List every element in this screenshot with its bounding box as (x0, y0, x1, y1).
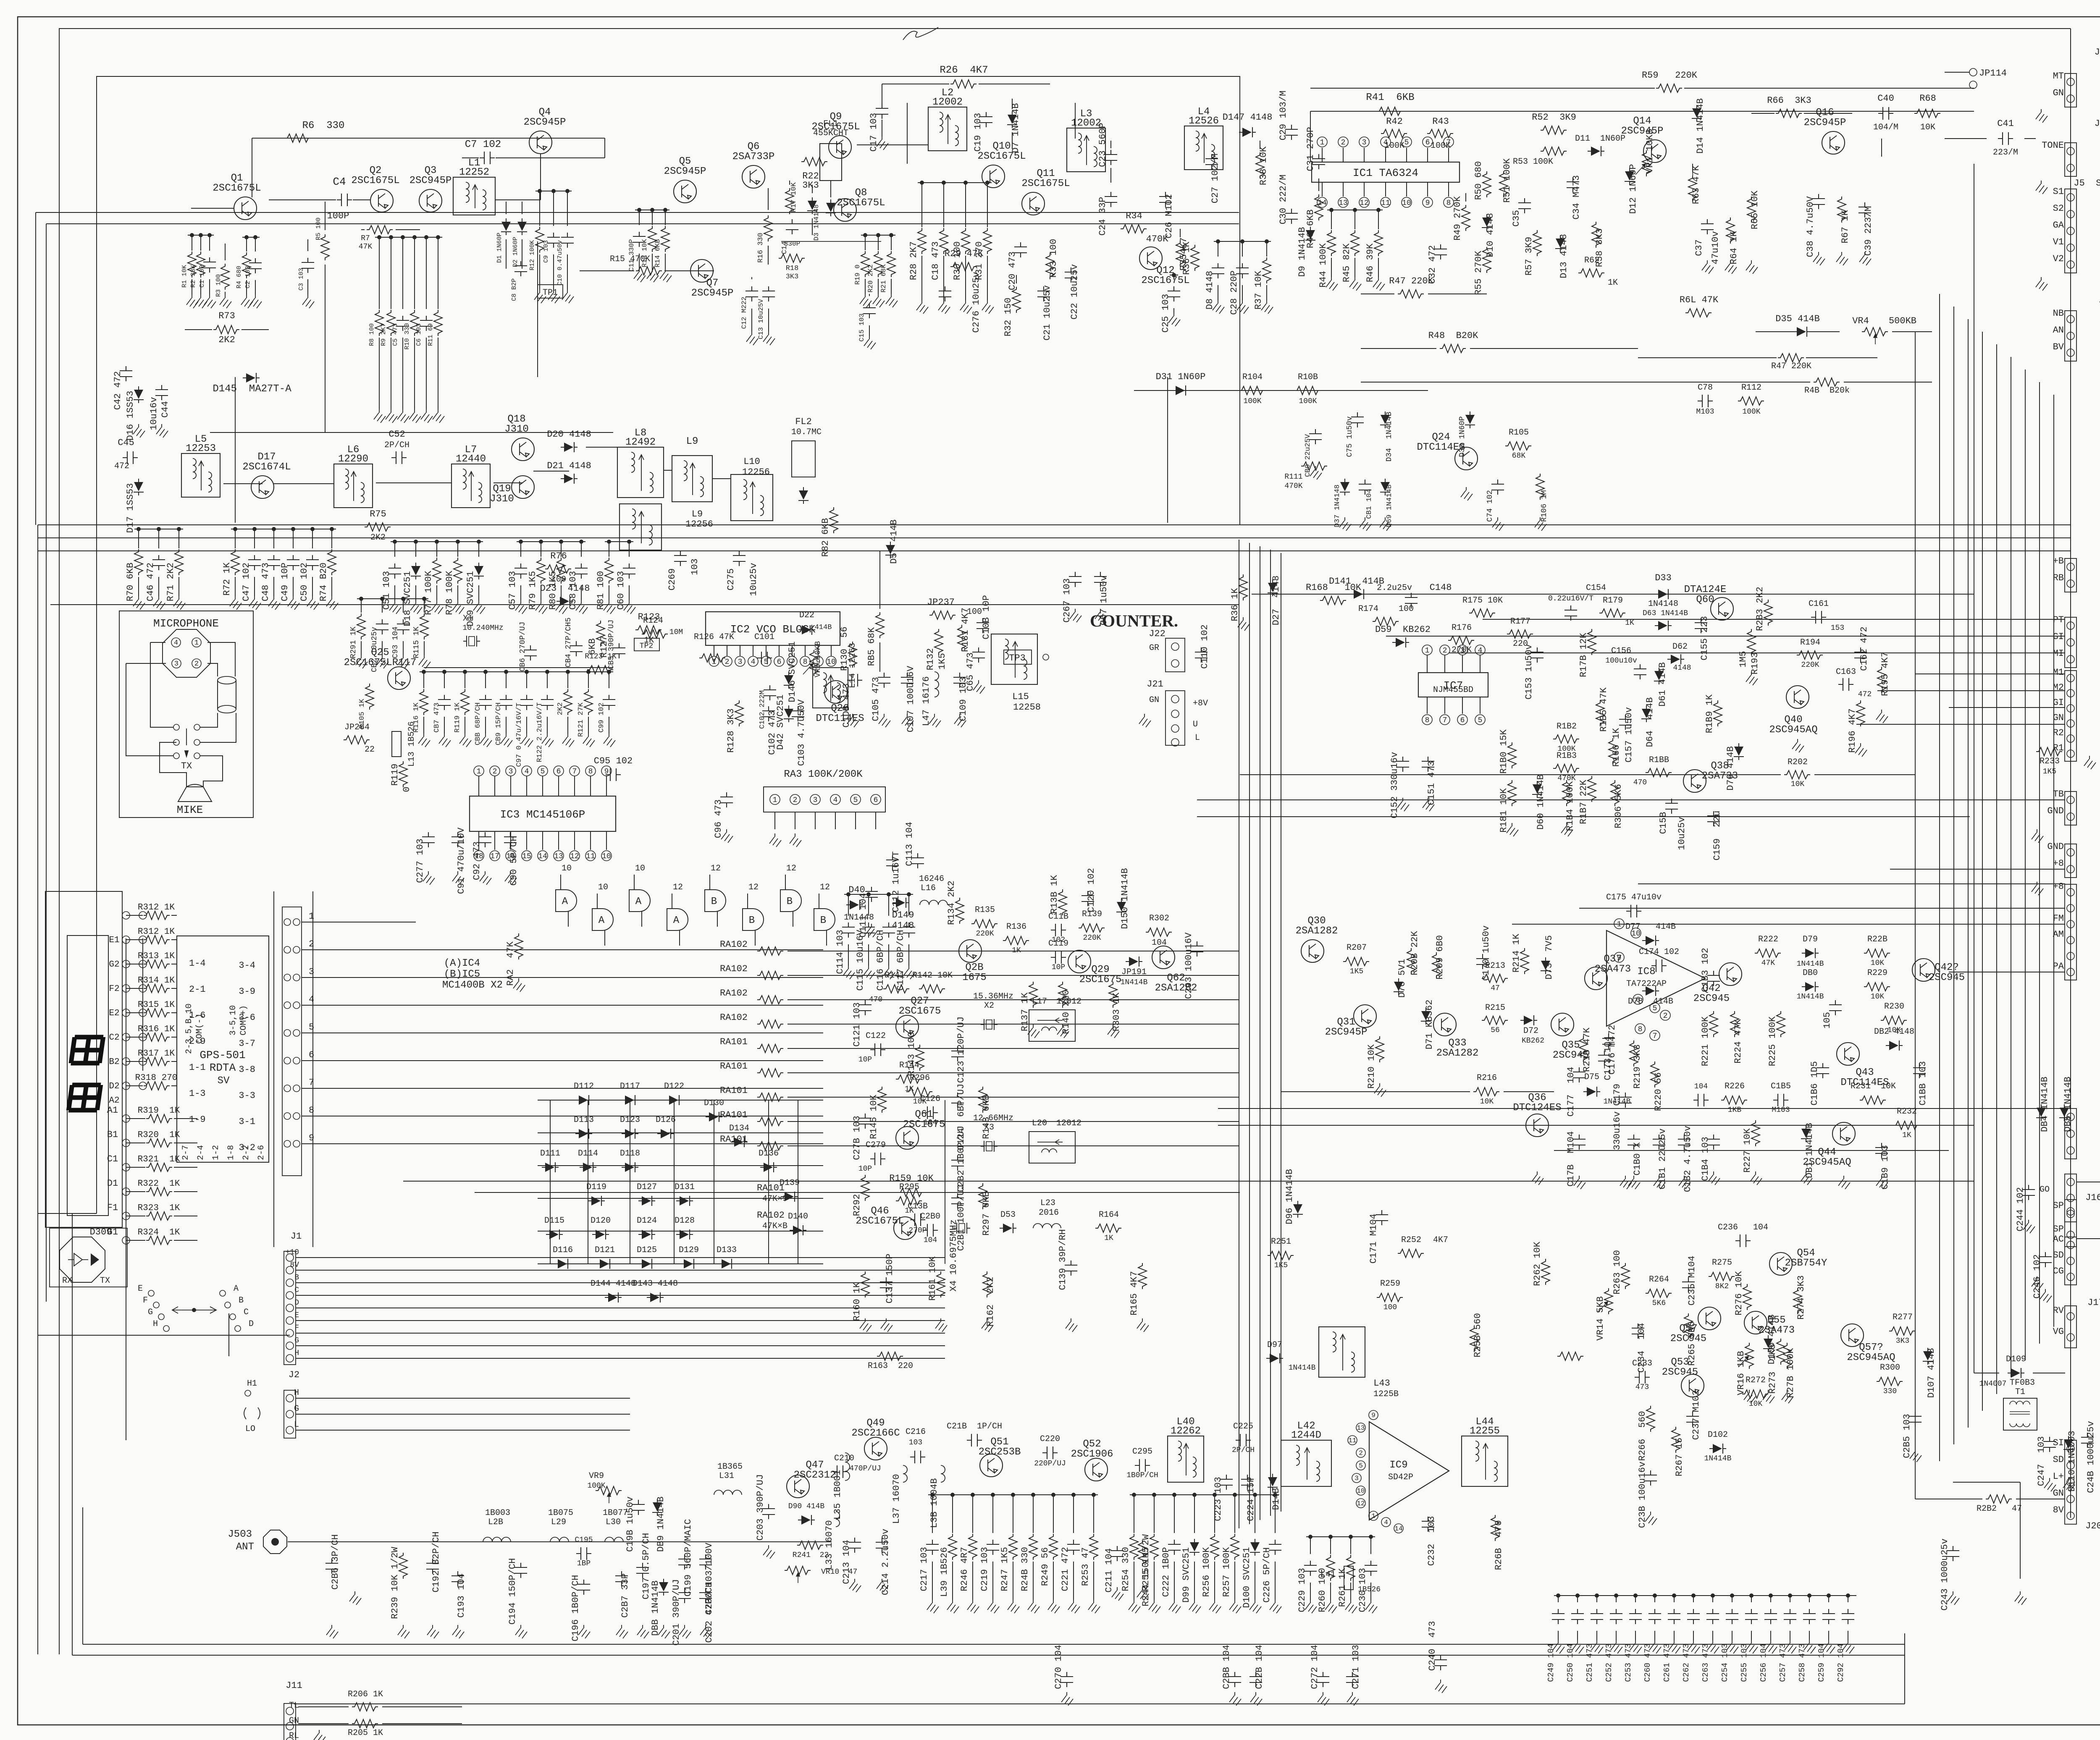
svg-text:C194 150P/CH: C194 150P/CH (507, 1558, 518, 1625)
wire (2077, 696, 2100, 1182)
capacitor C295 (1135, 1459, 1150, 1472)
svg-text:2SC2312: 2SC2312 (794, 1470, 836, 1481)
capacitor C255 (1751, 1596, 1752, 1602)
svg-text:R297 6KB: R297 6KB (981, 1191, 992, 1236)
ground (1129, 1600, 1140, 1613)
svg-text:C30 222/M: C30 222/M (1278, 175, 1289, 225)
resistor R7 (367, 225, 393, 234)
svg-text:D42 SVC251: D42 SVC251 (775, 694, 786, 750)
svg-text:2: 2 (194, 660, 199, 668)
svg-text:R130 56: R130 56 (839, 626, 850, 671)
svg-text:11: 11 (586, 852, 595, 861)
resistor R4 (246, 237, 247, 252)
svg-text:R36 1K: R36 1K (1230, 588, 1240, 621)
svg-text:C235 M104: C235 M104 (1687, 1256, 1697, 1306)
resistor R205 (352, 1719, 378, 1728)
ground (515, 600, 527, 614)
ground (987, 1600, 999, 1613)
ground (1189, 1600, 1201, 1613)
diode D107 (1923, 1348, 1933, 1365)
diode D133 (718, 1259, 735, 1269)
svg-text:D99 SVC251: D99 SVC251 (1181, 1547, 1192, 1603)
ground (2032, 882, 2043, 895)
svg-text:12258: 12258 (1013, 702, 1041, 713)
diode D129 (680, 1259, 697, 1269)
svg-text:6: 6 (1636, 996, 1641, 1004)
svg-text:R224 47K: R224 47K (1733, 1019, 1743, 1063)
svg-text:C148: C148 (1430, 582, 1452, 593)
capacitor C243 (1947, 1546, 1959, 1561)
svg-text:Q18: Q18 (507, 414, 525, 425)
svg-text:C193 104: C193 104 (456, 1573, 467, 1618)
svg-text:C157 1u50v: C157 1u50v (1624, 707, 1634, 763)
resistor R185 (1596, 700, 1604, 726)
svg-text:+10: +10 (286, 1248, 299, 1257)
capacitor C182 (1678, 1135, 1690, 1150)
svg-text:IC8: IC8 (1637, 966, 1655, 977)
svg-text:470P/UJ: 470P/UJ (849, 1465, 881, 1473)
resistor R128 (735, 700, 743, 726)
diode D81 (1801, 1125, 1811, 1142)
ground (1229, 1600, 1241, 1613)
resistor R24B (1033, 1495, 1034, 1533)
resistor R66 (1776, 109, 1802, 118)
svg-text:C211 104: C211 104 (1104, 1548, 1114, 1593)
ground (860, 1318, 871, 1332)
resistor R73 (213, 325, 239, 334)
svg-text:R50 680: R50 680 (1473, 161, 1484, 200)
svg-text:CB7 473: CB7 473 (433, 702, 441, 732)
svg-text:C192 B2P/CH: C192 B2P/CH (431, 1531, 441, 1592)
svg-text:R62: R62 (1584, 256, 1599, 265)
ground (133, 424, 145, 438)
connector J12 (2065, 617, 2076, 668)
capacitor C11 (639, 210, 640, 225)
transistor Q31 (1354, 1005, 1376, 1027)
resistor R22 (801, 157, 827, 166)
svg-text:R274 3K3: R274 3K3 (1796, 1275, 1806, 1320)
capacitor C217 (932, 1495, 933, 1533)
svg-text:D96 1N414B: D96 1N414B (1284, 1169, 1295, 1224)
svg-text:AC: AC (2053, 1234, 2064, 1245)
wire (2020, 1482, 2021, 1579)
svg-text:R202: R202 (1788, 757, 1808, 767)
svg-text:RA2 47K: RA2 47K (505, 941, 516, 985)
wire (302, 1032, 823, 1033)
capacitor C272 (1317, 1672, 1329, 1687)
svg-text:R6L 47K: R6L 47K (1680, 295, 1719, 305)
resistor R247 (1013, 1495, 1013, 1533)
diode D1 (501, 218, 511, 235)
capacitor C152 (1396, 757, 1409, 772)
transistor Q57 (1698, 1307, 1721, 1330)
resistor R47 (1398, 290, 1424, 298)
wire (1167, 377, 1168, 523)
diode D62 (1667, 654, 1684, 664)
capacitor C138 (910, 1213, 925, 1226)
resistor R61 (1685, 309, 1711, 317)
wire (302, 1088, 823, 1089)
wire (302, 1116, 823, 1116)
svg-text:1-8: 1-8 (226, 1145, 236, 1160)
diode D17b (134, 479, 144, 495)
svg-text:C47 102: C47 102 (241, 563, 252, 601)
ground (1804, 1640, 1816, 1654)
svg-text:C220: C220 (1040, 1434, 1060, 1444)
resistor R20 (878, 235, 879, 250)
ground (1630, 1640, 1642, 1654)
svg-text:C139 39P/RH: C139 39P/RH (1058, 1229, 1068, 1290)
logic gate (592, 909, 613, 930)
resistor R208 (1407, 948, 1415, 974)
wire (35, 212, 36, 525)
transistor Q37 (1585, 967, 1607, 990)
transistor Q4 (529, 131, 552, 154)
ground (1305, 1600, 1317, 1613)
connector J5 (2065, 189, 2076, 273)
svg-text:1-9: 1-9 (189, 1114, 206, 1125)
ground (1611, 1640, 1622, 1654)
svg-text:2SC945: 2SC945 (1929, 972, 1965, 983)
svg-text:R220 56: R220 56 (1653, 1072, 1664, 1111)
svg-text:R68: R68 (1919, 93, 1936, 104)
svg-text:18: 18 (474, 852, 483, 861)
svg-text:VR16 1KB: VR16 1KB (1736, 1351, 1746, 1395)
ground (1669, 1640, 1680, 1654)
svg-text:J21: J21 (1147, 679, 1163, 689)
svg-text:1B077: 1B077 (603, 1508, 628, 1518)
svg-text:R256 100K: R256 100K (1201, 1547, 1212, 1597)
diode D144 (605, 1292, 622, 1302)
svg-text:F1: F1 (107, 1203, 118, 1213)
svg-text:8: 8 (1425, 716, 1430, 725)
capacitor C121 (859, 1000, 871, 1015)
svg-text:R312 1K: R312 1K (138, 903, 175, 912)
svg-text:12256: 12256 (742, 467, 770, 477)
svg-text:R17B 12K: R17B 12K (1578, 632, 1589, 677)
wire (1252, 594, 1974, 595)
svg-text:R160 1K: R160 1K (852, 1282, 862, 1321)
svg-text:C155 223: C155 223 (1699, 616, 1710, 660)
svg-text:RA102: RA102 (720, 964, 748, 974)
svg-text:IC9: IC9 (1389, 1460, 1407, 1471)
svg-text:C34 M473: C34 M473 (1571, 175, 1582, 220)
svg-text:R225 100K: R225 100K (1767, 1016, 1778, 1067)
svg-text:Q57: Q57 (1679, 1323, 1697, 1334)
capacitor C247 (2043, 1437, 2056, 1452)
capacitor C84 (570, 641, 583, 656)
ground (1572, 1640, 1584, 1654)
transistor Q42 (1719, 963, 1742, 985)
ground (1746, 672, 1758, 685)
svg-text:C292 104: C292 104 (1836, 1643, 1845, 1682)
svg-text:D147 4148: D147 4148 (1223, 112, 1273, 123)
svg-text:R20 2K2: R20 2K2 (867, 264, 874, 292)
wire (781, 241, 881, 242)
svg-text:C199 560P/MAIC: C199 560P/MAIC (683, 1519, 693, 1597)
resistor R58 (1592, 222, 1600, 248)
svg-text:5: 5 (541, 768, 545, 776)
wire (1638, 883, 2065, 884)
svg-text:TF0B3: TF0B3 (2010, 1378, 2035, 1388)
ground (2044, 1478, 2056, 1491)
svg-text:270P: 270P (908, 1226, 927, 1235)
svg-text:104/M: 104/M (1873, 123, 1898, 132)
capacitor C159 (1707, 811, 1720, 826)
svg-text:2SC945AQ: 2SC945AQ (1847, 1352, 1895, 1363)
wire (38, 550, 2071, 551)
capacitor C45 (123, 451, 138, 464)
svg-text:C232 103: C232 103 (1426, 1516, 1437, 1566)
potentiometer (1604, 1288, 1613, 1314)
capacitor C225 (1236, 1434, 1251, 1447)
resistor R239 (399, 1553, 407, 1579)
capacitor C4 (337, 194, 352, 206)
wire (588, 1100, 588, 1264)
ground (268, 596, 280, 610)
resistor R226 (1721, 1096, 1747, 1104)
ground (1397, 798, 1409, 811)
capacitor C233 (1635, 1371, 1650, 1384)
ground (604, 600, 615, 614)
resistor R264 (1646, 1289, 1672, 1297)
resistor R278 (1783, 1343, 1791, 1369)
resistor R77 (436, 542, 437, 557)
connector J4 (2065, 143, 2076, 176)
diode D130 (706, 1112, 722, 1122)
wire (1310, 111, 1311, 162)
svg-text:1N414B: 1N414B (1121, 978, 1148, 987)
svg-text:A: A (635, 896, 642, 907)
svg-text:1B003: 1B003 (485, 1508, 510, 1518)
svg-text:R33 100: R33 100 (1048, 239, 1059, 278)
svg-text:GN: GN (289, 1716, 299, 1726)
diode D30 (1465, 411, 1475, 428)
wire (2070, 29, 2071, 67)
svg-text:2: 2 (493, 768, 497, 776)
svg-text:FM: FM (2053, 913, 2064, 924)
svg-text:R264: R264 (1649, 1275, 1669, 1284)
crystal X2 (981, 1019, 997, 1030)
svg-text:7: 7 (572, 768, 577, 776)
connector J20 (2065, 1440, 2076, 1524)
resistor R184 (1562, 780, 1571, 806)
svg-text:R11 69: R11 69 (427, 323, 434, 346)
svg-text:L20: L20 (1032, 1119, 1047, 1128)
svg-text:330u16v C179: 330u16v C179 (1612, 1084, 1622, 1150)
resistor R132 (934, 629, 943, 655)
svg-text:3-3: 3-3 (239, 1090, 255, 1101)
svg-text:C229 103: C229 103 (1297, 1568, 1307, 1612)
svg-text:1B365: 1B365 (717, 1462, 743, 1472)
svg-text:D102: D102 (1708, 1430, 1728, 1440)
svg-text:D129: D129 (679, 1245, 699, 1255)
svg-text:R81 100: R81 100 (596, 571, 606, 610)
transistor Q47 (787, 1475, 809, 1498)
connector J13 (2065, 671, 2076, 761)
svg-text:D21 4148: D21 4148 (547, 461, 591, 471)
resistor R292 (861, 1175, 869, 1201)
transistor Q55 (1744, 1311, 1767, 1334)
svg-text:C252 473: C252 473 (1604, 1643, 1614, 1682)
resistor rows R312-R318 (144, 911, 170, 920)
ground (1365, 1600, 1377, 1613)
resistor R249 (1053, 1495, 1054, 1533)
svg-text:J17: J17 (2087, 1297, 2100, 1308)
ground (1068, 1600, 1080, 1613)
ground (501, 734, 512, 747)
svg-text:C7 102: C7 102 (465, 139, 501, 150)
svg-text:C116 6BP/CH: C116 6BP/CH (875, 930, 886, 991)
svg-text:D53: D53 (1000, 1210, 1016, 1220)
diode D125 (638, 1259, 655, 1269)
svg-text:2SC945: 2SC945 (1662, 1367, 1698, 1378)
svg-text:10: 10 (827, 658, 836, 666)
svg-text:100K: 100K (1299, 397, 1317, 406)
mike speaker (178, 784, 212, 802)
svg-text:10P: 10P (858, 1056, 872, 1064)
resistor R49 (1465, 193, 1466, 202)
svg-text:C1BB 103: C1BB 103 (1918, 1061, 1928, 1106)
resistor R135 (971, 920, 997, 928)
svg-text:6: 6 (1460, 716, 1465, 725)
svg-text:2SC945P: 2SC945P (409, 175, 452, 186)
svg-text:C13B: C13B (908, 1202, 928, 1211)
resistor R1 (192, 235, 192, 251)
svg-text:R65 10K: R65 10K (1750, 190, 1760, 229)
diode D33 (1655, 589, 1672, 599)
capacitor C112 (886, 855, 899, 870)
potentiometer (596, 1486, 622, 1495)
capacitor C154 (1564, 605, 1577, 621)
capacitor C178 (1573, 1135, 1585, 1150)
svg-text:Q53: Q53 (1671, 1357, 1689, 1368)
wire (1483, 619, 2065, 620)
capacitor C177 (1573, 1067, 1585, 1082)
ground (249, 596, 261, 610)
ground (604, 734, 615, 747)
svg-text:D2: D2 (109, 1082, 119, 1091)
GPS-501 rotary switch (177, 936, 269, 1162)
svg-text:R231 10K: R231 10K (1851, 1082, 1896, 1091)
svg-text:R46 39K: R46 39K (1365, 243, 1375, 282)
resistor R261 (1350, 1537, 1351, 1554)
wire (1218, 1125, 1974, 1126)
resistor R260 (1330, 1537, 1331, 1554)
resistor 2K2 (567, 672, 568, 688)
capacitor C271 (1346, 1672, 1359, 1687)
jumper JP114 (1969, 68, 1977, 76)
svg-text:10K: 10K (1791, 780, 1805, 789)
7-segment digit (71, 1037, 103, 1063)
svg-text:2-2: 2-2 (241, 1145, 251, 1160)
svg-text:ANT: ANT (236, 1541, 254, 1553)
svg-text:R300: R300 (1880, 1363, 1900, 1373)
ground (1765, 1640, 1777, 1654)
ground (534, 290, 546, 303)
svg-text:C255 103: C255 103 (1740, 1643, 1749, 1682)
resistor R244 (1138, 1540, 1147, 1566)
capacitor C232 (1422, 1517, 1434, 1532)
inductor L23 (1033, 1224, 1061, 1228)
svg-text:4: 4 (751, 658, 756, 666)
capacitor C27 (1205, 154, 1218, 169)
svg-text:2SB754Y: 2SB754Y (1785, 1258, 1827, 1269)
svg-text:4: 4 (309, 994, 314, 1005)
wire (1554, 1150, 1949, 1151)
inductor L37 (903, 1465, 907, 1482)
svg-text:C276 10u25v: C276 10u25v (971, 272, 982, 333)
transistor Q61 (896, 1127, 919, 1149)
resistor L39 (952, 1495, 953, 1533)
switch H1/LO (245, 1390, 251, 1396)
transistor Q40 (1786, 686, 1809, 708)
capacitor C13 (762, 286, 775, 301)
svg-text:2: 2 (1341, 139, 1346, 147)
diode D60 (1532, 781, 1542, 798)
resistor R57 (1533, 230, 1541, 256)
transistor Q62 (1152, 946, 1175, 969)
transistor Q18 (512, 438, 534, 461)
filter FL2 (792, 441, 815, 477)
capacitor C171 (1375, 1210, 1388, 1225)
svg-text:R119 1K: R119 1K (454, 702, 462, 733)
svg-text:C1B4 103: C1B4 103 (1700, 1137, 1711, 1181)
diode D11 (1588, 146, 1604, 156)
svg-text:D120: D120 (591, 1216, 611, 1226)
svg-text:C249 104: C249 104 (1546, 1643, 1556, 1682)
diode D121 (596, 1259, 613, 1269)
wire (312, 891, 313, 1247)
ground (1707, 1640, 1719, 1654)
wire (823, 999, 1239, 1000)
wire (235, 377, 236, 377)
capacitor C220 (1042, 1447, 1058, 1459)
svg-text:D20 4148: D20 4148 (547, 429, 591, 440)
capacitor C240 (1434, 1655, 1447, 1670)
capacitor CBB (485, 672, 486, 688)
wire (403, 1181, 1974, 1182)
diode D61 (1654, 668, 1664, 684)
svg-text:GN: GN (2053, 88, 2064, 98)
svg-text:12: 12 (1357, 1500, 1365, 1507)
transformer T1 (2003, 1398, 2037, 1430)
capacitor C17 (876, 104, 888, 119)
svg-text:TP1: TP1 (543, 288, 558, 298)
capacitor C29 (1285, 125, 1298, 140)
wire (1260, 546, 1260, 1520)
svg-text:R119: R119 (390, 764, 400, 786)
svg-text:12253: 12253 (186, 443, 216, 454)
capacitor C119 (1051, 951, 1066, 964)
svg-text:12: 12 (1360, 199, 1369, 207)
ground (556, 600, 567, 614)
svg-text:6: 6 (309, 1050, 314, 1060)
resistor R134 (955, 898, 964, 924)
capacitor C99 (609, 672, 609, 688)
svg-text:C1B0 X: C1B0 X (1632, 1142, 1643, 1175)
svg-text:CB4 27P/CH5: CB4 27P/CH5 (564, 618, 573, 668)
resistor R32 (1016, 275, 1017, 283)
svg-text:V1: V1 (2053, 237, 2064, 247)
resistor R31 (987, 183, 988, 227)
wire (295, 1430, 630, 1431)
svg-text:D149: D149 (892, 910, 914, 920)
diode D63 (1655, 621, 1672, 631)
svg-text:L15: L15 (1012, 692, 1029, 702)
svg-text:DTC114ES: DTC114ES (1417, 442, 1465, 453)
ground (548, 290, 560, 303)
